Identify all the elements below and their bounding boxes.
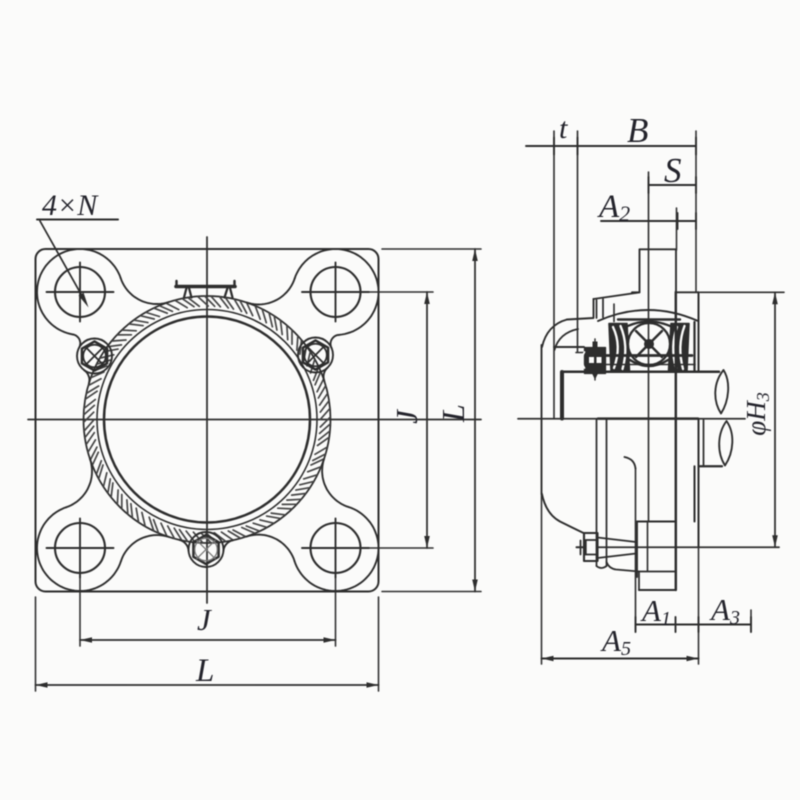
hex screw UL bbox=[82, 341, 107, 370]
plate bottom edge bbox=[639, 589, 676, 591]
hex screw side stub bbox=[577, 546, 586, 548]
centerline horizontal front bbox=[28, 419, 481, 421]
bolt hole LR bbox=[311, 523, 361, 573]
lobe arc UR bbox=[295, 249, 379, 335]
svg-text:φH3: φH3 bbox=[741, 392, 773, 435]
dim J bottom bbox=[80, 639, 336, 641]
web top right bbox=[247, 278, 295, 304]
set screw axis bbox=[594, 339, 596, 380]
svg-text:A5: A5 bbox=[600, 623, 631, 660]
bolt hole UR bbox=[311, 267, 361, 317]
housing right face bbox=[698, 292, 700, 372]
shaft break upper lens bbox=[715, 370, 728, 414]
label 4xN leader bbox=[37, 219, 118, 221]
web right lower bbox=[322, 459, 349, 507]
shaft bottom edge right bbox=[700, 465, 722, 467]
svg-text:4×N: 4×N bbox=[42, 189, 99, 222]
web top left bbox=[121, 278, 169, 304]
boss circle B bbox=[189, 532, 224, 567]
svg-text:B: B bbox=[627, 111, 648, 150]
housing ring middle circle bbox=[97, 310, 317, 530]
svg-text:L: L bbox=[435, 404, 471, 423]
bolt hole LL bbox=[55, 523, 105, 573]
shaft bottom silhouette on centerline bbox=[598, 417, 698, 419]
shaft break lower lens bbox=[719, 421, 732, 466]
cage arc below ball bbox=[630, 360, 668, 366]
dim S line bbox=[649, 184, 697, 186]
bore circle outer bbox=[104, 317, 310, 523]
grease passage side bbox=[597, 299, 604, 318]
dim phiH3 line bbox=[774, 292, 776, 547]
web bottom boss right bbox=[223, 540, 233, 551]
plate collar tip bbox=[597, 566, 607, 568]
boss bottom edge bbox=[597, 546, 779, 548]
svg-text:J: J bbox=[389, 409, 424, 424]
pressed plate curve bottom bbox=[542, 494, 584, 534]
plate collar hole left bbox=[596, 419, 598, 566]
web UR boss to ring bbox=[324, 368, 328, 381]
label L right bbox=[435, 404, 471, 423]
pressed plate curve top bbox=[542, 320, 567, 348]
dim A5 line bbox=[542, 658, 699, 660]
bearing center plane line bbox=[648, 172, 650, 522]
svg-text:J: J bbox=[197, 602, 212, 637]
raceway arc bbox=[620, 322, 678, 331]
hex screw B bbox=[193, 535, 218, 564]
svg-text:A3: A3 bbox=[709, 592, 740, 629]
svg-text:t: t bbox=[559, 112, 568, 145]
bore right edge below bbox=[703, 420, 705, 466]
collar ext to A5 bbox=[541, 494, 543, 664]
boss top right segment bbox=[676, 291, 699, 293]
web left lower bbox=[66, 459, 92, 507]
dim A2 line bbox=[601, 220, 696, 222]
boss circle UL bbox=[77, 339, 112, 374]
shaft end face bbox=[560, 372, 564, 419]
collar step to screw bbox=[576, 352, 584, 354]
side centerline bbox=[518, 418, 745, 420]
inner ring bottom band bbox=[606, 354, 692, 357]
lobe arc LL bbox=[37, 507, 121, 591]
plate front face / t ext right bbox=[577, 131, 579, 352]
collar top edge bbox=[554, 346, 584, 348]
outer ring right face top bbox=[693, 322, 695, 371]
hex screw side head bbox=[584, 533, 598, 561]
hex screw shank bbox=[598, 538, 637, 559]
set screw nub bbox=[592, 342, 598, 380]
web bottom boss left bbox=[179, 540, 188, 551]
dim t B line bbox=[526, 145, 696, 147]
web bottom left bbox=[121, 535, 169, 561]
plate collar hole right bbox=[606, 419, 608, 566]
boss top left segment bbox=[632, 291, 640, 293]
boss circle UR bbox=[298, 338, 333, 373]
svg-text:A2: A2 bbox=[597, 189, 630, 226]
bore step bottom bbox=[637, 521, 676, 523]
plate back face / t ext left bbox=[553, 131, 555, 419]
A1 ext left / sleeve end bbox=[635, 469, 637, 631]
dim L bottom bbox=[36, 684, 379, 686]
svg-text:L: L bbox=[195, 653, 214, 689]
dim L right bbox=[474, 249, 476, 592]
dim J right bbox=[426, 292, 428, 548]
web bottom right bbox=[246, 535, 294, 562]
svg-text:A1: A1 bbox=[640, 593, 671, 630]
collar tip to step bbox=[607, 562, 640, 572]
centerline vertical front bbox=[206, 237, 208, 603]
hex screw UR bbox=[303, 340, 328, 369]
raised rib top bbox=[640, 249, 677, 292]
plate bottom step bbox=[639, 571, 676, 573]
outer ring left shoulder bbox=[613, 304, 615, 322]
dim A1 A3 line bbox=[636, 624, 752, 626]
collar outer face bbox=[541, 345, 543, 494]
web UL lobe to boss bbox=[73, 334, 81, 347]
sleeve hook below bbox=[625, 457, 636, 469]
ring knurl hatch band bbox=[84, 297, 330, 543]
flange square outline bbox=[36, 249, 379, 592]
lobe arc UL bbox=[37, 249, 121, 334]
housing ring outer circle bbox=[84, 296, 331, 543]
dim phiH3 ext top bbox=[700, 291, 784, 293]
shaft top edge bbox=[562, 371, 719, 374]
bolt hole UL bbox=[55, 267, 105, 317]
set screw block top bbox=[585, 348, 606, 374]
lobe arc LR bbox=[295, 507, 379, 591]
housing slope top bbox=[594, 293, 640, 300]
web UR lobe to boss bbox=[331, 335, 339, 348]
sleeve top line bbox=[596, 364, 695, 366]
ext A2 left bbox=[676, 208, 678, 250]
bearing left wedge bbox=[609, 324, 630, 372]
grease fitting front bbox=[176, 285, 235, 289]
label J right bbox=[389, 409, 424, 424]
housing OD top left bbox=[567, 299, 594, 320]
sleeve bottom right edge bbox=[647, 522, 649, 572]
ext B S right bbox=[695, 131, 697, 292]
housing right face ext to A3/A5 bbox=[698, 547, 700, 664]
plate front face lower bbox=[675, 292, 677, 590]
outer ring sphere arc bbox=[598, 310, 698, 321]
outer ring top band bbox=[618, 318, 680, 320]
svg-text:S: S bbox=[664, 151, 682, 190]
web UL boss to ring bbox=[84, 370, 89, 383]
ball bbox=[628, 323, 670, 365]
set screw left notch bbox=[582, 352, 585, 368]
ball cross bbox=[636, 331, 662, 357]
outer ring right face bottom bbox=[694, 466, 696, 521]
pressed plate curve top inner bbox=[555, 329, 579, 350]
bearing right wedge bbox=[669, 324, 690, 372]
